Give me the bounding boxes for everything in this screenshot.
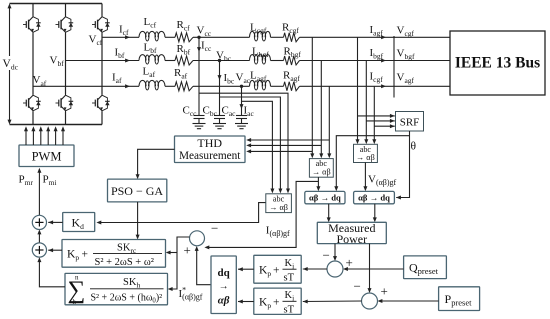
svg-text:Measurement: Measurement bbox=[179, 150, 241, 162]
svg-text:PWM: PWM bbox=[32, 150, 62, 164]
wire top DC rail bbox=[10, 3, 103, 5]
block IEEE 13 Bus bbox=[450, 31, 545, 95]
wire tap phase a to abc block 3 bbox=[373, 86, 375, 142]
svg-text:h: h bbox=[73, 299, 77, 306]
current arrow Iagf bbox=[381, 35, 386, 39]
block THD Measurement bbox=[175, 136, 246, 163]
svg-text:→ αβ: → αβ bbox=[312, 168, 331, 177]
inverter leg 2 wires bbox=[65, 4, 67, 16]
svg-text:IEEE 13 Bus: IEEE 13 Bus bbox=[455, 55, 540, 72]
wire tap phase b to abc block 2 bbox=[320, 61, 322, 157]
current arrow Ibgf bbox=[381, 59, 386, 63]
svg-text:αβ → dq: αβ → dq bbox=[358, 192, 390, 202]
svg-text:αβ → dq: αβ → dq bbox=[309, 192, 341, 202]
svg-text:αβ: αβ bbox=[218, 295, 230, 307]
svg-text:n: n bbox=[75, 274, 79, 282]
wire THD to PSO-GA bbox=[138, 149, 175, 177]
block alphabeta to dq 2 bbox=[354, 191, 395, 203]
capacitor Cac branch wire bbox=[241, 86, 243, 115]
resistor Rbgf bbox=[284, 56, 300, 65]
wire tap phase b to abc block 3 bbox=[365, 61, 367, 142]
svg-text:−: − bbox=[354, 279, 361, 294]
inductor Lagf bbox=[250, 80, 271, 86]
wire dq2 output to measured power bbox=[374, 204, 376, 221]
resistor Rbf bbox=[175, 56, 193, 65]
wire S3 output to controllers bbox=[169, 237, 189, 289]
current arrow Icgf bbox=[381, 84, 386, 88]
svg-text:S² + 2ωS + (hω0)²: S² + 2ωS + (hω0)² bbox=[91, 293, 163, 305]
svg-text:+: + bbox=[273, 296, 280, 308]
summing junction S5 bbox=[362, 293, 378, 309]
wire PI1 output to dq-alphabeta bbox=[238, 268, 254, 270]
wire bottom DC rail bbox=[10, 124, 103, 126]
gate drive arrows PWM to inverter bbox=[25, 128, 27, 145]
wire phase c line bbox=[102, 36, 139, 38]
block PWM bbox=[19, 145, 74, 167]
wire abc3 output to alphabeta-dq 2 bbox=[364, 163, 366, 190]
wire PSO-GA to PR controller bbox=[137, 202, 139, 238]
capacitor Cac bbox=[241, 115, 243, 117]
node Vbc bbox=[218, 59, 221, 62]
svg-text:−: − bbox=[323, 248, 330, 263]
block alphabeta to dq 1 bbox=[305, 191, 345, 203]
voltage measurement bar bbox=[393, 36, 395, 98]
wire to THD input 1 bbox=[249, 139, 330, 141]
transistor Q5 bottom IGBT bbox=[65, 94, 67, 95]
block abc to alphabeta 1 bbox=[266, 194, 292, 213]
wire to SRF input 2 bbox=[366, 120, 395, 122]
svg-text:sT: sT bbox=[284, 304, 295, 315]
wire tap phase a to abc block 2 bbox=[328, 86, 330, 156]
inverter leg 1 wires bbox=[32, 4, 34, 16]
wire phase a line bbox=[33, 85, 139, 87]
svg-text:dq: dq bbox=[217, 267, 230, 279]
block abc to alphabeta 2 bbox=[309, 159, 333, 178]
block dq to alphabeta bbox=[211, 256, 236, 314]
wire harmonic compensator output to S2 bbox=[39, 259, 65, 287]
wire Qpreset to S4 bbox=[345, 268, 404, 270]
summing junction S3 bbox=[190, 231, 205, 246]
current arrow Ibf bbox=[125, 59, 130, 63]
wire I(ab)gf feedback to Kd bbox=[98, 203, 266, 223]
block PSO-GA bbox=[108, 179, 167, 202]
svg-text:Power: Power bbox=[336, 232, 367, 246]
block harmonic compensator sum SKh bbox=[65, 273, 168, 304]
block PI controller 1 bbox=[254, 255, 301, 283]
node Vac bbox=[240, 85, 243, 88]
wire dq1 output to measured power bbox=[328, 204, 330, 221]
current arrow Iac bbox=[240, 104, 244, 109]
wire S2 to S1 bbox=[38, 231, 40, 243]
wire S5 to PI controller 2 bbox=[303, 300, 362, 303]
svg-text:+: + bbox=[273, 264, 280, 276]
capacitor Ccc bbox=[198, 115, 200, 117]
current arrow Icc bbox=[197, 47, 201, 52]
block PI controller 2 bbox=[254, 288, 301, 314]
inductor Lbgf bbox=[250, 55, 271, 61]
wire abc2 output to alphabeta-dq 1 bbox=[317, 177, 319, 189]
node Vcc bbox=[197, 36, 200, 39]
wire Kd output to S1 bbox=[48, 221, 63, 223]
wire PR output to S2 bbox=[48, 249, 62, 251]
wire P to summing junction S5 bbox=[369, 244, 371, 292]
wire to SRF input 3 bbox=[374, 125, 395, 127]
wire phase b line bbox=[66, 60, 140, 62]
summing junction S2 bbox=[32, 243, 46, 257]
svg-text:→ αβ: → αβ bbox=[269, 203, 288, 212]
capacitor Ccc branch wire bbox=[198, 37, 200, 115]
svg-text:θ: θ bbox=[411, 141, 417, 153]
svg-text:+: + bbox=[82, 249, 89, 261]
block PR controller Kp+SKrc bbox=[62, 240, 166, 268]
wire to SRF input 1 bbox=[358, 115, 395, 117]
transistor Q3 top IGBT bbox=[101, 16, 103, 17]
wire theta to alphabeta-dq 1 bbox=[336, 136, 409, 190]
summing junction S4 bbox=[327, 261, 343, 277]
svg-text:+: + bbox=[381, 284, 388, 299]
wire reference current to S3 bbox=[197, 248, 211, 285]
inverter leg 3 wires bbox=[101, 4, 103, 16]
wire Ppreset to S5 bbox=[379, 300, 439, 302]
wire S4 to PI controller 1 bbox=[303, 268, 327, 270]
svg-text:−: − bbox=[211, 221, 218, 236]
wire PI2 output to dq-alphabeta bbox=[238, 301, 254, 303]
block Measured Power bbox=[317, 222, 386, 243]
resistor Rcf bbox=[175, 33, 193, 42]
svg-text:→ αβ: → αβ bbox=[356, 153, 375, 162]
transistor Q2 top IGBT bbox=[65, 16, 67, 17]
svg-text:PSO − GA: PSO − GA bbox=[111, 184, 163, 198]
resistor Ragf bbox=[284, 82, 300, 91]
wire tap phase c to abc block 3 bbox=[357, 37, 359, 142]
svg-text:→: → bbox=[219, 281, 229, 292]
transistor Q4 bottom IGBT bbox=[32, 94, 34, 95]
svg-text:+: + bbox=[184, 243, 191, 258]
resistor Rcgf bbox=[284, 33, 300, 42]
inductor Lcgf bbox=[250, 31, 271, 37]
Vdc measurement arrow bbox=[9, 8, 11, 121]
inductor Lcf bbox=[139, 31, 165, 37]
wire to THD input 3 bbox=[249, 150, 313, 152]
wire to THD input 2 bbox=[249, 144, 322, 146]
block Kd bbox=[63, 213, 95, 232]
block Ppreset bbox=[439, 287, 480, 311]
transistor Q6 bottom IGBT bbox=[101, 94, 103, 95]
capacitor Cbc branch wire bbox=[219, 61, 221, 116]
summing junction S1 bbox=[32, 215, 46, 229]
wire Vbc pickoff to abc block 1 bbox=[220, 97, 281, 191]
wire Vcc pickoff to abc block 1 bbox=[199, 93, 288, 191]
wire Vac pickoff to abc block 1 bbox=[242, 101, 273, 191]
svg-text:SRF: SRF bbox=[400, 117, 420, 129]
current arrow Icf bbox=[125, 35, 130, 39]
wire modulation input to PWM bbox=[38, 170, 40, 216]
current arrow Ibc bbox=[218, 75, 222, 80]
inductor Laf bbox=[139, 80, 165, 86]
wire branch into PR controller bbox=[167, 252, 177, 254]
svg-text:THD: THD bbox=[197, 136, 222, 150]
wire tap phase c to abc block 2 bbox=[311, 37, 313, 156]
capacitor Cbc bbox=[219, 115, 221, 117]
block Qpreset bbox=[404, 256, 447, 279]
svg-text:S² + 2ωS + ω²: S² + 2ωS + ω² bbox=[95, 257, 154, 268]
inductor Lbf bbox=[139, 55, 165, 61]
block abc to alphabeta 3 bbox=[354, 144, 378, 162]
block SRF bbox=[396, 112, 424, 132]
wire voltage feedforward to S3 bbox=[206, 181, 318, 247]
wire SRF theta output bbox=[396, 131, 409, 198]
transistor Q1 top IGBT bbox=[32, 16, 34, 17]
resistor Raf bbox=[175, 82, 193, 91]
current arrow Iaf bbox=[125, 84, 130, 88]
wire Q to summing junction S4 bbox=[334, 244, 336, 260]
svg-text:sT: sT bbox=[284, 272, 295, 283]
